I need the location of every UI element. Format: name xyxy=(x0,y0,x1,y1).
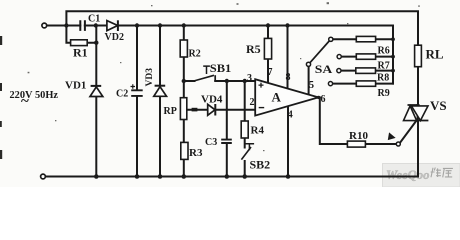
SA contact R8 xyxy=(337,69,341,73)
resistor R8 xyxy=(356,68,376,74)
svg-text:5: 5 xyxy=(309,80,314,91)
resistor R10 xyxy=(347,141,365,147)
wire main positive rail xyxy=(47,25,393,27)
svg-text:RP: RP xyxy=(164,106,177,117)
resistor R2 xyxy=(180,40,187,57)
svg-text:C1: C1 xyxy=(88,14,100,25)
node bus R8 xyxy=(391,69,395,73)
wire bottom rail xyxy=(45,176,418,178)
node main after C1 xyxy=(94,23,98,27)
node gnd SB2 xyxy=(242,174,247,179)
wire R2 RP R3 column xyxy=(183,26,185,177)
svg-text:4: 4 xyxy=(288,110,293,121)
svg-text:WeeQoo: WeeQoo xyxy=(386,168,430,182)
diode VD4 xyxy=(208,104,216,116)
svg-text:220V 50Hz: 220V 50Hz xyxy=(10,90,59,101)
node R2 bottom xyxy=(182,79,186,83)
svg-text:3: 3 xyxy=(247,73,252,84)
wire top rail xyxy=(66,11,418,45)
svg-text:2: 2 xyxy=(250,97,255,108)
wire C3 column xyxy=(226,81,228,177)
diode VD1 xyxy=(90,86,103,97)
node main C2 xyxy=(135,23,139,27)
svg-text:VS: VS xyxy=(430,98,447,113)
svg-text:R3: R3 xyxy=(189,147,203,159)
node C3 top xyxy=(225,79,229,83)
scan speckles xyxy=(28,2,420,151)
wire SA row R7 xyxy=(341,56,393,58)
gate arrow blob xyxy=(388,133,394,139)
wire SA row R9 xyxy=(333,83,393,85)
svg-text:VD1: VD1 xyxy=(65,80,86,92)
node gnd pin4 xyxy=(286,174,291,179)
svg-text:SB1: SB1 xyxy=(210,61,232,75)
terminal lower xyxy=(41,174,46,179)
svg-text:R8: R8 xyxy=(377,73,389,84)
wire pin4 to ground xyxy=(287,106,289,176)
svg-text:R1: R1 xyxy=(73,46,88,60)
svg-text:R6: R6 xyxy=(378,46,390,57)
capacitor C1 xyxy=(80,20,85,31)
selector switch SA arm xyxy=(310,41,329,63)
node gnd R3 xyxy=(182,174,187,179)
wire SA row R8 xyxy=(341,70,393,72)
node main VD3 xyxy=(158,23,162,27)
SA contact R7 xyxy=(337,55,341,59)
resistor R1 xyxy=(71,40,88,46)
node main R2 xyxy=(182,23,186,27)
diode VD2 xyxy=(107,20,118,31)
wire VD3 column xyxy=(159,26,161,177)
svg-text:SB2: SB2 xyxy=(250,158,271,172)
wire triac gate slant xyxy=(400,121,416,142)
node R4 top xyxy=(243,79,247,83)
svg-text:R10: R10 xyxy=(349,130,368,142)
svg-text:C3: C3 xyxy=(205,137,217,148)
svg-text:~: ~ xyxy=(21,94,29,110)
op-amp minus sign xyxy=(259,107,265,109)
node gnd C3 xyxy=(225,174,230,179)
resistor RL xyxy=(415,45,422,66)
resistor R9 xyxy=(356,81,375,86)
capacitor C3 xyxy=(221,140,232,143)
svg-text:C2: C2 xyxy=(116,89,128,100)
SA contact R9 xyxy=(328,82,332,86)
diode VD3 xyxy=(154,86,167,97)
node bus R6 xyxy=(391,37,395,41)
svg-text:VD2: VD2 xyxy=(105,32,124,43)
svg-text:7: 7 xyxy=(268,67,273,78)
svg-text:SA: SA xyxy=(315,62,333,76)
pushbutton SB2 xyxy=(241,144,254,160)
svg-text:R9: R9 xyxy=(378,88,390,99)
potentiometer RP wiper xyxy=(192,108,198,112)
svg-text:VD4: VD4 xyxy=(201,94,223,106)
node gnd C2 xyxy=(135,174,140,179)
resistor R7 xyxy=(356,54,375,59)
svg-text:RL: RL xyxy=(426,47,444,62)
resistor R4 xyxy=(241,121,248,138)
node gnd VD1 xyxy=(94,174,99,179)
node main R5 xyxy=(266,23,270,27)
terminal upper xyxy=(42,23,47,28)
triac VS xyxy=(404,105,429,121)
wire right bus to SA resistors xyxy=(392,26,394,84)
svg-text:VD3: VD3 xyxy=(145,68,155,87)
svg-text:8: 8 xyxy=(286,72,291,83)
wire C2 column xyxy=(136,26,138,177)
wire SA row R6 xyxy=(333,38,393,40)
node bus R7 xyxy=(391,55,395,59)
svg-text:R5: R5 xyxy=(246,42,261,56)
capacitor C2 xyxy=(131,84,143,96)
resistor R3 xyxy=(181,142,188,159)
SA contact R6 xyxy=(329,37,333,41)
wire node row pin3 xyxy=(184,80,255,82)
potentiometer RP xyxy=(180,98,186,120)
wire VD1 column xyxy=(95,26,97,177)
node R1 right xyxy=(94,41,98,45)
wire R1 branch xyxy=(66,26,96,43)
watermark text xyxy=(386,168,453,183)
selector switch SA pivot xyxy=(306,62,310,66)
pushbutton SB1 xyxy=(194,66,215,81)
wire op-amp output to R10 xyxy=(318,97,396,144)
svg-text:R7: R7 xyxy=(378,61,390,72)
wire R4 SB2 column xyxy=(244,81,246,177)
wire pin8 xyxy=(287,26,289,89)
node op-amp output apex xyxy=(317,96,320,99)
svg-text:6: 6 xyxy=(321,94,326,105)
svg-text:R4: R4 xyxy=(251,125,265,137)
left edge scan artifacts xyxy=(0,36,2,159)
resistor R5 xyxy=(264,38,271,59)
svg-text:A: A xyxy=(272,90,282,105)
op-amp A xyxy=(255,79,318,115)
watermark box xyxy=(383,164,460,188)
wire pin5 to SA xyxy=(308,67,310,95)
node main pin8 xyxy=(285,23,289,27)
wire RL to triac xyxy=(417,67,419,177)
wire VD4 row pin2 xyxy=(187,109,255,111)
node main-C1 left xyxy=(64,23,68,27)
wire R5 pin7 xyxy=(267,26,269,83)
svg-text:R2: R2 xyxy=(189,49,201,60)
node gnd VD3 xyxy=(158,174,163,179)
triac gate terminal circle xyxy=(396,142,400,146)
op-amp plus sign xyxy=(259,83,264,88)
resistor R6 xyxy=(356,36,375,41)
